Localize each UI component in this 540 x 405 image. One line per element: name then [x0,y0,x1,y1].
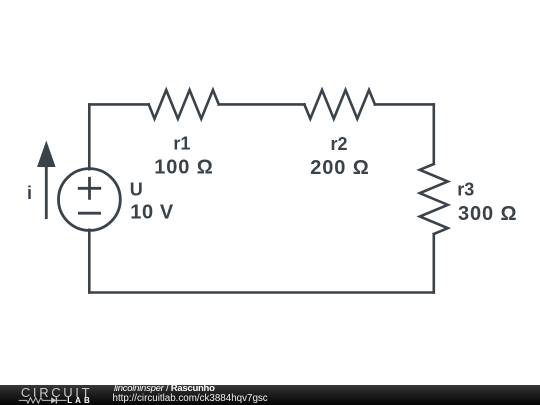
svg-text:r1: r1 [173,134,190,154]
wire: left vertical lower [88,230,91,293]
wire: top-left segment [89,103,148,106]
resistor R1 zigzag [149,90,219,119]
svg-text:LAB: LAB [67,396,93,405]
voltage source U circle [59,169,121,231]
footer text line 1 [114,384,215,395]
svg-text:200 Ω: 200 Ω [310,157,369,179]
current arrow i shaft [45,165,48,218]
footer text line 2 [113,394,268,405]
wire: right vertical lower [432,234,435,293]
footer bar [0,385,540,405]
wire: bottom segment [89,291,434,294]
resistor R2 zigzag [304,90,375,119]
wire: top-middle segment [219,103,305,106]
svg-text:r2: r2 [330,134,347,154]
voltage source plus sign [79,178,100,198]
svg-text:100 Ω: 100 Ω [154,157,213,179]
voltage source minus sign [79,212,99,215]
CircuitLab logo [15,384,105,405]
svg-text:r3: r3 [457,180,474,200]
svg-text:10 V: 10 V [130,202,174,224]
wire: top-right segment [375,103,434,106]
svg-text:U: U [130,179,143,199]
svg-text:300 Ω: 300 Ω [458,203,517,225]
wire: left vertical upper [88,104,91,169]
resistor R3 zigzag [420,164,448,234]
wire: right vertical upper [432,104,435,164]
current arrow i head [37,141,56,168]
svg-text:i: i [27,183,32,203]
